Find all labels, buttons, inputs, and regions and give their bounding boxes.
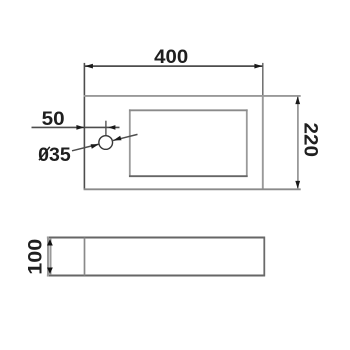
svg-text:220: 220 [299,123,321,158]
svg-text:50: 50 [42,108,65,130]
svg-text:400: 400 [154,46,188,68]
svg-text:100: 100 [25,239,47,275]
